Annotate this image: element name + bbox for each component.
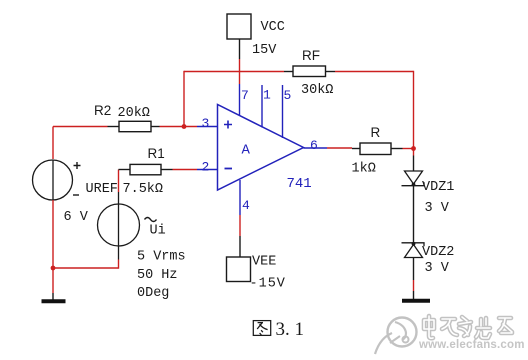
wire R to output node (red) [403, 148, 414, 150]
power VEE [227, 255, 286, 292]
resistor R [352, 125, 403, 177]
svg-text:2: 2 [202, 160, 210, 175]
op-amp U1 A 741 [218, 105, 312, 193]
pin 1 (blue) [261, 85, 263, 128]
wire bottom horizontal (red) [53, 267, 119, 269]
svg-text:1: 1 [263, 88, 271, 103]
node ground junction [51, 266, 56, 271]
wire top feedback horizontal right (red) [335, 71, 414, 73]
svg-text:5 Vrms: 5 Vrms [137, 250, 186, 265]
wire UREF to ground junction (red) [52, 200, 54, 293]
svg-text:7.5kΩ: 7.5kΩ [123, 182, 164, 197]
svg-text:0Deg: 0Deg [137, 286, 169, 301]
watermark text 电子发烧友 (stylized) [424, 316, 512, 338]
resistor R2 [94, 103, 160, 132]
svg-text:3 V: 3 V [425, 201, 450, 216]
wire VDZ2 to ground (black/red) [413, 258, 415, 281]
wire VCC to pin7 (red) [239, 59, 241, 84]
svg-text:R2: R2 [94, 103, 111, 118]
source Ui [98, 170, 186, 302]
svg-text:R: R [371, 125, 381, 140]
svg-text:3 V: 3 V [425, 261, 450, 276]
zener diode VDZ2 [402, 242, 455, 276]
wire Ui bottom (red) [118, 260, 120, 269]
svg-text:3: 3 [202, 116, 210, 131]
zener diode VDZ1 [402, 171, 455, 216]
svg-text:20kΩ: 20kΩ [118, 106, 150, 121]
wire VEE stub (black) [239, 236, 241, 257]
node + input junction [182, 124, 187, 129]
svg-text:3. 1: 3. 1 [276, 319, 305, 340]
pin 7 (blue) [239, 84, 241, 116]
pin 3 stub (blue) [197, 126, 218, 128]
pin 4 (blue) [239, 180, 241, 215]
svg-text:6: 6 [310, 138, 318, 153]
pin 6 stub (blue) [304, 147, 328, 149]
svg-text:6 V: 6 V [64, 210, 89, 225]
watermark logo elecfans [375, 318, 417, 355]
wire R2 left to UREF branch (red) [53, 126, 108, 128]
wire pin4 to VEE (red) [239, 215, 241, 236]
ground right [402, 299, 430, 303]
svg-text:Ui: Ui [150, 224, 166, 239]
wire VCC stub (black) [239, 39, 241, 59]
wire node to VDZ1 (black) [413, 156, 415, 172]
svg-text:30kΩ: 30kΩ [301, 83, 333, 98]
svg-text:A: A [242, 143, 251, 159]
svg-text:1kΩ: 1kΩ [352, 162, 376, 177]
node output junction [411, 146, 416, 151]
wire pin6 to R (red) [327, 147, 352, 149]
svg-text:5: 5 [284, 88, 292, 103]
pin 5 (blue) [282, 85, 284, 138]
wire R2 right to node A junction (red) [160, 126, 198, 128]
svg-text:VCC: VCC [261, 20, 285, 35]
svg-text:RF: RF [302, 48, 320, 63]
wire VDZ1 to VDZ2 (black) [413, 186, 415, 243]
caption 图 3.1 [253, 321, 270, 336]
svg-text:741: 741 [287, 176, 312, 192]
source UREF [33, 127, 118, 226]
svg-text:4: 4 [242, 198, 250, 213]
svg-text:-15V: -15V [250, 277, 286, 292]
svg-text:VEE: VEE [252, 255, 276, 270]
wire top feedback vertical left (red) [183, 71, 185, 127]
svg-text:15V: 15V [252, 43, 277, 58]
wire right vertical (red) [413, 71, 415, 156]
svg-text:7: 7 [241, 88, 249, 103]
resistor R1 [119, 146, 173, 197]
svg-text:50 Hz: 50 Hz [137, 268, 178, 283]
svg-text:VDZ2: VDZ2 [422, 245, 454, 260]
svg-text:UREF: UREF [86, 182, 118, 197]
wire top feedback horizontal left (red) [184, 71, 284, 73]
ground left [42, 293, 66, 301]
power VCC [227, 14, 285, 58]
resistor RF [284, 48, 335, 98]
wire R1 to pin 2 (red) [173, 169, 198, 171]
svg-text:R1: R1 [148, 146, 165, 161]
pin 2 stub (blue) [197, 169, 218, 171]
svg-text:VDZ1: VDZ1 [422, 180, 454, 195]
svg-text:www.elecfans.com: www.elecfans.com [418, 339, 525, 351]
